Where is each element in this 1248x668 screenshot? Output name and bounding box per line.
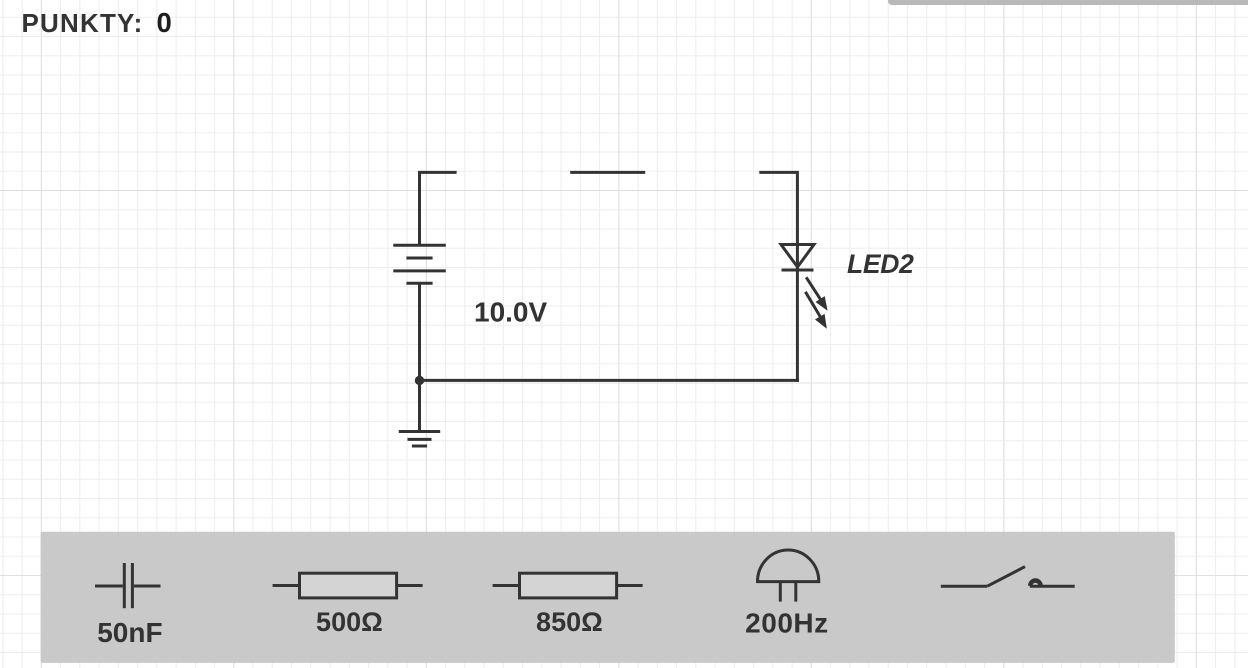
svg-text:10.0V: 10.0V (474, 297, 547, 328)
switch icon (941, 567, 1075, 587)
wire LED to bottom (796, 270, 799, 382)
wire top-left (420, 172, 457, 245)
wire top-right (759, 172, 797, 246)
resistor 500 icon (273, 573, 423, 598)
svg-text:200Hz: 200Hz (745, 608, 828, 639)
LED LED2 (781, 245, 821, 319)
buzzer icon (758, 550, 819, 602)
junction node (415, 376, 424, 385)
battery V1 (393, 245, 446, 283)
svg-text:LED2: LED2 (847, 249, 914, 279)
ground (399, 380, 440, 446)
wire bottom (418, 379, 799, 382)
LED arrow heads (815, 296, 828, 329)
wire top-middle (570, 171, 645, 174)
svg-text:850Ω: 850Ω (536, 607, 603, 637)
svg-text:500Ω: 500Ω (316, 607, 383, 637)
wire battery to junction (418, 283, 421, 380)
svg-text:50nF: 50nF (97, 617, 162, 648)
component palette (41, 532, 1175, 663)
top toolbar edge (888, 0, 1248, 5)
resistor 850 icon (493, 573, 643, 598)
capacitor icon (95, 563, 161, 608)
score label PUNKTY (22, 7, 172, 39)
